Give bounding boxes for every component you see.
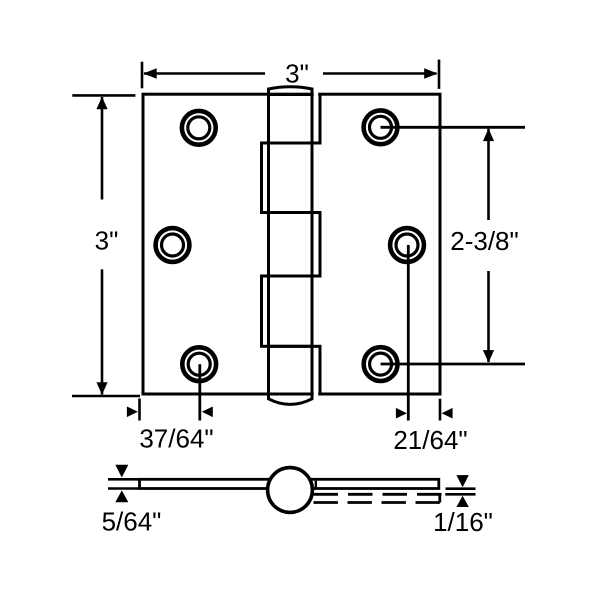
svg-text:2-3/8": 2-3/8": [450, 226, 519, 256]
svg-text:3": 3": [285, 59, 309, 89]
svg-text:21/64": 21/64": [393, 425, 467, 455]
svg-text:5/64": 5/64": [102, 507, 162, 537]
svg-text:1/16": 1/16": [433, 507, 493, 537]
svg-text:3": 3": [95, 226, 119, 256]
svg-text:37/64": 37/64": [139, 424, 213, 454]
